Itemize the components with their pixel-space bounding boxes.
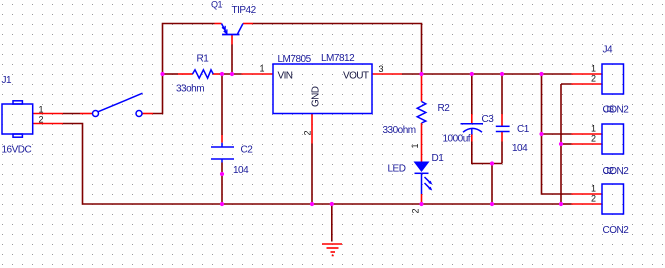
svg-text:16VDC: 16VDC: [2, 145, 32, 156]
svg-text:R2: R2: [438, 103, 451, 114]
svg-text:J3: J3: [604, 105, 615, 116]
svg-text:330ohm: 330ohm: [383, 125, 416, 136]
svg-text:2: 2: [411, 209, 421, 214]
svg-text:J4: J4: [603, 45, 614, 56]
svg-text:J1: J1: [2, 75, 13, 86]
svg-text:LED: LED: [388, 164, 406, 175]
svg-text:GND: GND: [311, 86, 322, 107]
svg-text:1: 1: [260, 64, 265, 74]
svg-text:1000uf: 1000uf: [443, 134, 471, 145]
svg-text:J2: J2: [604, 166, 615, 177]
svg-text:C3: C3: [482, 114, 495, 125]
svg-text:104: 104: [233, 165, 249, 176]
svg-text:R1: R1: [197, 54, 210, 65]
svg-text:C1: C1: [517, 124, 530, 135]
svg-text:104: 104: [512, 143, 528, 154]
svg-text:1: 1: [410, 144, 420, 149]
svg-text:2: 2: [591, 74, 596, 84]
svg-text:3: 3: [379, 64, 384, 74]
svg-text:1: 1: [39, 105, 44, 115]
svg-text:C2: C2: [241, 145, 254, 156]
svg-text:33ohm: 33ohm: [176, 84, 204, 95]
svg-text:1: 1: [591, 184, 596, 194]
svg-text:Q1: Q1: [211, 0, 223, 10]
svg-text:TIP42: TIP42: [232, 5, 257, 16]
svg-text:D1: D1: [432, 153, 445, 164]
svg-text:VIN: VIN: [278, 70, 293, 81]
svg-text:LM7805: LM7805: [278, 54, 312, 65]
svg-text:CON2: CON2: [603, 225, 630, 236]
svg-text:1: 1: [591, 124, 596, 134]
svg-text:LM7812: LM7812: [321, 53, 355, 64]
svg-text:2: 2: [591, 194, 596, 204]
svg-text:1: 1: [591, 64, 596, 74]
svg-text:2: 2: [591, 134, 596, 144]
svg-text:2: 2: [39, 115, 44, 125]
svg-text:VOUT: VOUT: [343, 70, 369, 81]
svg-text:2: 2: [303, 131, 313, 136]
